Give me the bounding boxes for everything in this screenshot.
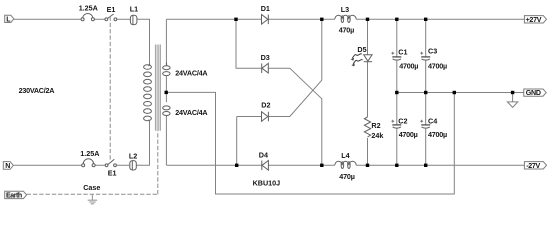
svg-text:GND: GND bbox=[526, 89, 541, 97]
svg-text:4700µ: 4700µ bbox=[399, 61, 418, 70]
svg-text:C3: C3 bbox=[428, 47, 437, 56]
svg-text:230VAC/2A: 230VAC/2A bbox=[19, 86, 55, 95]
svg-text:4700µ: 4700µ bbox=[428, 130, 447, 139]
svg-text:1.25A: 1.25A bbox=[80, 149, 99, 158]
svg-text:L1: L1 bbox=[130, 4, 138, 13]
svg-text:D2: D2 bbox=[261, 100, 270, 109]
svg-text:C4: C4 bbox=[428, 116, 437, 125]
svg-text:24VAC/4A: 24VAC/4A bbox=[175, 108, 207, 117]
svg-text:470µ: 470µ bbox=[339, 25, 354, 34]
svg-text:L2: L2 bbox=[129, 151, 137, 160]
svg-text:D5: D5 bbox=[357, 45, 366, 54]
svg-text:24VAC/4A: 24VAC/4A bbox=[175, 68, 207, 77]
svg-text:KBU10J: KBU10J bbox=[253, 178, 281, 187]
svg-text:C1: C1 bbox=[398, 47, 407, 56]
svg-text:4700µ: 4700µ bbox=[399, 130, 418, 139]
svg-text:+27V: +27V bbox=[526, 16, 542, 24]
svg-text:Earth: Earth bbox=[6, 193, 22, 200]
svg-text:-27V: -27V bbox=[526, 162, 540, 170]
svg-text:D1: D1 bbox=[261, 4, 270, 13]
svg-text:R2: R2 bbox=[371, 121, 380, 130]
svg-text:L3: L3 bbox=[341, 5, 349, 14]
svg-text:D4: D4 bbox=[259, 150, 268, 159]
svg-text:24k: 24k bbox=[371, 131, 383, 140]
svg-text:4700µ: 4700µ bbox=[428, 61, 447, 70]
svg-text:L: L bbox=[6, 16, 11, 23]
svg-text:Case: Case bbox=[83, 183, 100, 192]
svg-text:E1: E1 bbox=[108, 168, 117, 177]
svg-text:C2: C2 bbox=[398, 116, 407, 125]
svg-text:D3: D3 bbox=[261, 53, 270, 62]
svg-text:L4: L4 bbox=[341, 151, 349, 160]
svg-text:1.25A: 1.25A bbox=[79, 4, 98, 13]
svg-text:N: N bbox=[5, 163, 10, 170]
svg-text:E1: E1 bbox=[107, 5, 116, 14]
svg-text:470µ: 470µ bbox=[339, 172, 354, 181]
